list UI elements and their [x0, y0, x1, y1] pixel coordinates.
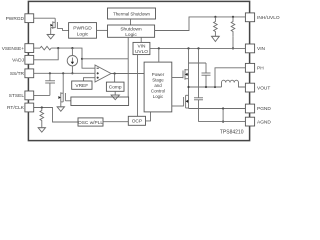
wire PH node line	[189, 86, 222, 88]
wire OSC to OCP	[103, 121, 128, 123]
wire Thermal Shutdown to Shutdown Logic	[130, 19, 132, 25]
node RT resistor top	[41, 106, 43, 108]
wire PGND line	[189, 108, 246, 110]
node R1 top	[214, 16, 216, 18]
module outline border	[28, 1, 249, 140]
svg-text:INH/UVLO: INH/UVLO	[257, 15, 280, 21]
OCP box	[128, 116, 145, 125]
wire VIN UVLO bottom down to OCP	[137, 55, 139, 117]
svg-text:Logic: Logic	[125, 32, 137, 38]
current source I1	[67, 48, 77, 73]
wire AGND line	[199, 121, 246, 123]
node sense branch on feedback line	[81, 58, 83, 60]
pin INH/UVLO	[245, 13, 254, 22]
transistor Q1 (PWRGD open drain)	[50, 18, 68, 34]
svg-text:PH: PH	[257, 66, 264, 72]
svg-text:OCP: OCP	[132, 119, 142, 125]
wire node to Comp box	[114, 74, 116, 83]
svg-text:PWRGD: PWRGD	[73, 26, 92, 32]
wire HS gate	[172, 77, 183, 79]
node Q2 drain on SS wire	[62, 72, 64, 74]
ground below Q2	[57, 107, 64, 112]
node current source top	[71, 47, 73, 49]
wire tie vertical	[222, 109, 224, 122]
transistor Q4 (low side)	[184, 95, 189, 108]
wire amp output to power stage	[111, 73, 144, 75]
ground below Q1	[47, 34, 54, 39]
wire resistor to feedback corner	[51, 48, 95, 68]
wire node down to power stage box	[158, 48, 160, 62]
wire input cap vertical upper	[198, 48, 200, 97]
wire R2 to VIN line	[232, 36, 234, 48]
compensation network box	[71, 97, 129, 106]
wire VSENSE+ pin to resistor	[34, 47, 40, 49]
node boot cap bottom	[205, 86, 207, 88]
ground below R1	[212, 36, 220, 41]
OSC w/PLL box	[78, 118, 103, 126]
pin AGND	[245, 117, 254, 126]
wire sense branch to shutdown logic	[82, 58, 128, 60]
svg-text:SS/TR: SS/TR	[10, 71, 25, 77]
pin PGND	[245, 104, 254, 113]
svg-text:VSENSE+: VSENSE+	[2, 46, 24, 52]
transistor Q2 (STSEL)	[58, 73, 71, 107]
svg-text:AGND: AGND	[257, 119, 271, 125]
Shutdown Logic box	[108, 25, 155, 37]
svg-text:Power: Power	[152, 72, 165, 77]
node amp output	[114, 72, 116, 74]
pin STSEL	[25, 91, 34, 100]
wire STSEL pin to cap	[34, 94, 50, 96]
svg-text:VREF: VREF	[75, 83, 88, 89]
svg-text:Logic: Logic	[77, 31, 89, 37]
svg-text:Comp: Comp	[109, 85, 122, 91]
resistor R3 (RT)	[40, 108, 44, 128]
wire LS gate	[172, 105, 184, 107]
svg-text:PGND: PGND	[257, 106, 271, 112]
Comp box	[106, 82, 124, 91]
pin VSENSE+	[25, 44, 34, 53]
node inductor left / PH pin riser	[214, 86, 216, 88]
svg-text:VOUT: VOUT	[257, 85, 270, 91]
resistor RSET (VSENSE feedback)	[40, 46, 51, 50]
pin VOUT	[245, 83, 254, 92]
minus sign input	[97, 67, 99, 69]
node R2 bottom on VIN line	[232, 47, 234, 49]
node soft-start cap top	[49, 72, 51, 74]
wire shutdown stub down to comp network box	[127, 37, 129, 97]
svg-text:VADJ: VADJ	[12, 58, 25, 64]
wire SS/TR to error amp	[34, 72, 95, 74]
svg-text:RT/CLK: RT/CLK	[7, 105, 25, 111]
wire PWRGD Logic to Shutdown Logic	[97, 29, 108, 31]
pin VIN	[245, 44, 254, 53]
wire VIN UVLO to VIN pin	[150, 47, 246, 49]
wire VADJ pin to node	[34, 48, 59, 60]
svg-text:UVLO: UVLO	[135, 49, 148, 55]
Power Stage and Control Logic box	[144, 62, 172, 112]
plus sign input mid	[97, 72, 99, 74]
capacitor C2 (boot)	[202, 63, 211, 87]
node input cap top	[197, 47, 199, 49]
wire PWRGD pin to Q1 drain	[34, 17, 56, 19]
capacitor C1 (soft start)	[45, 73, 55, 95]
svg-text:Stage: Stage	[152, 78, 164, 83]
svg-text:OSC w/PLL: OSC w/PLL	[78, 120, 103, 126]
ground below R3	[38, 128, 45, 133]
PWRGD Logic box	[69, 23, 97, 39]
ground below Comp	[111, 91, 119, 99]
inductor L1	[222, 80, 246, 87]
VREF box	[72, 81, 92, 89]
plus sign input low	[97, 77, 99, 79]
wire Shutdown Logic to INH/UVLO pin	[155, 17, 246, 31]
wire FET bus	[188, 48, 190, 108]
node VADJ junction	[57, 47, 59, 49]
resistor R2 (INH divider lower)	[231, 17, 235, 36]
svg-text:PWRGD: PWRGD	[6, 16, 25, 22]
svg-text:Logic: Logic	[153, 94, 164, 99]
VIN UVLO box	[133, 42, 150, 54]
transistor Q3 (high side)	[183, 69, 189, 80]
svg-text:and: and	[154, 83, 162, 88]
capacitor C3 (input)	[194, 98, 203, 122]
pin PH	[245, 63, 254, 72]
svg-text:VIN: VIN	[138, 44, 147, 50]
svg-text:STSEL: STSEL	[9, 93, 25, 99]
svg-text:Control: Control	[151, 89, 165, 94]
pin SS/TR	[25, 69, 34, 78]
node power stage VIN	[158, 47, 160, 49]
node FET bus top	[187, 47, 189, 49]
wire OCP to power stage	[146, 112, 151, 121]
wire VREF to amp input	[84, 78, 93, 81]
node R2 top	[232, 16, 234, 18]
wire PH pin to node	[215, 68, 245, 87]
node PH bus	[187, 86, 189, 88]
node PGND/AGND tie top	[222, 107, 224, 109]
op-amp U1 (error amplifier)	[92, 65, 111, 82]
svg-text:Shutdown: Shutdown	[120, 27, 142, 33]
svg-text:VIN: VIN	[257, 46, 266, 52]
node current source bottom on SS wire	[71, 72, 73, 74]
svg-text:TPS84210: TPS84210	[220, 129, 244, 135]
wire Shutdown Logic to VIN UVLO	[140, 37, 142, 42]
pin RT/CLK	[25, 103, 34, 112]
pin PWRGD	[25, 14, 34, 23]
Thermal Shutdown box	[108, 8, 156, 19]
wire boot branch	[189, 62, 207, 64]
node PGND/AGND tie bottom	[222, 121, 224, 123]
resistor R1 (INH divider upper)	[214, 17, 218, 36]
pin VADJ	[25, 55, 34, 64]
svg-text:Thermal Shutdown: Thermal Shutdown	[113, 11, 150, 16]
wire RT/CLK to OSC	[34, 108, 78, 123]
